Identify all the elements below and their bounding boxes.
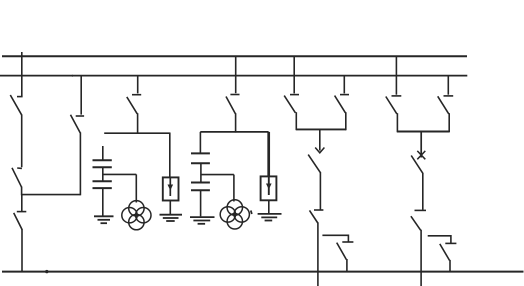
wire: QS8 to junction bar <box>345 112 347 130</box>
wire: stub above capacitor C1 <box>102 146 104 160</box>
fan M1 <box>122 201 151 230</box>
ground: below capacitor stack 1 <box>94 216 114 223</box>
disconnect switch QS16 <box>440 243 457 260</box>
capacitor C4 <box>191 183 210 191</box>
wire: feeder C tee branch <box>322 235 348 241</box>
wire: feeder D tee branch <box>428 236 451 243</box>
bus W3 (bottom bus) <box>2 271 524 273</box>
disconnect switch QS8 <box>335 95 349 113</box>
wire: QS14 to QS15 <box>422 173 424 210</box>
wire: feeder B from QS4 to node N1 <box>79 132 81 195</box>
capacitor C2 <box>93 181 112 188</box>
disconnect switch QS10 <box>310 210 324 223</box>
wire: feeder D left leg from top bus <box>395 56 397 94</box>
disconnect switch QS3 <box>14 212 27 230</box>
disconnect switch QS7 <box>284 95 299 113</box>
surge arrester F1 <box>163 177 179 200</box>
dot on bus W2 <box>71 75 73 77</box>
wire: QS9 to QS10 <box>319 172 321 209</box>
bus W2 (lower bus) <box>0 75 467 77</box>
wire: branch 1 from QS5 to header <box>137 113 139 134</box>
wire: header to capacitor C3 <box>199 132 201 154</box>
wire: QS11 to bottom bus <box>346 259 348 272</box>
ground: below arrester F1 <box>160 215 183 221</box>
disconnect switch QS15 <box>411 210 426 230</box>
ground: below arrester F2 <box>258 214 282 221</box>
junction dot on bus W3 <box>45 270 48 273</box>
wire: arrester F1 to ground <box>169 201 171 215</box>
wire: branch 1 header to arrester F1 <box>169 133 171 179</box>
wire: C4 to ground <box>200 190 202 216</box>
wire: QS13 to junction bar <box>448 113 450 132</box>
wire: between C1 and C2 <box>102 167 104 181</box>
wire: C2 to ground <box>102 188 104 216</box>
wire: feeder D junction bar <box>397 131 449 133</box>
wire: feeder C left leg from top bus <box>293 56 295 93</box>
wire: feeder D right leg from lower bus <box>447 76 449 95</box>
wire: feeder A from QS2 to node N1 <box>21 187 23 196</box>
wire: capacitor branch 2 tap from top bus <box>235 56 237 93</box>
disconnect switch QS11 <box>337 242 354 260</box>
wire: branch 2 from QS6 to header <box>235 113 237 132</box>
wire: mid-tap of capacitor stack 2 to fan M2 <box>201 175 234 202</box>
stray mark near arrester F2 ground <box>251 211 252 215</box>
wire: feeder C junction bar <box>296 128 346 130</box>
wire: QS12 to junction bar <box>396 113 398 132</box>
wire: feeder A from top bus <box>21 52 23 96</box>
wire: QS10 through bottom bus to edge <box>317 222 319 286</box>
wire: capacitor branch 1 tap from lower bus <box>137 76 139 94</box>
wire: branch 2 header to arrester F2 (thick lead) <box>267 132 270 177</box>
disconnect switch QS13 <box>438 96 454 114</box>
fan M2 <box>220 200 249 229</box>
wire: branch 2 header rail <box>200 131 268 133</box>
capacitor C1 <box>93 160 112 167</box>
disconnect switch QS4 <box>71 115 85 133</box>
wire: feeder D drop with star mark <box>417 132 425 160</box>
wire: QS15 through bottom bus to edge <box>420 230 422 286</box>
disconnect switch QS5 <box>127 95 141 114</box>
wire: QS7 to junction bar <box>295 112 297 130</box>
wire: feeder C drop with arrow <box>315 129 324 152</box>
wire: QS16 to bottom bus <box>449 260 451 272</box>
wire: feeder A between QS1 and QS2 <box>21 115 23 168</box>
bus W1 (top bus) <box>2 55 467 57</box>
disconnect switch QS6 <box>226 95 240 114</box>
disconnect switch QS9 <box>308 155 320 173</box>
disconnect switch QS2 <box>12 168 22 187</box>
capacitor C3 <box>191 153 210 163</box>
wire: mid-tap of capacitor stack 1 to fan M1 <box>103 174 137 202</box>
wire: interconnect node N1 to feeder B <box>22 194 81 196</box>
disconnect switch QS1 <box>10 95 22 115</box>
disconnect switch QS12 <box>386 96 402 114</box>
wire: feeder B from lower bus <box>80 76 82 115</box>
ground: below capacitor stack 2 <box>190 217 215 224</box>
wire: feeder C right leg from lower bus <box>343 76 345 94</box>
wire: arrester F2 to ground <box>268 200 270 213</box>
wire: feeder A from node N1 to QS3 <box>21 195 23 212</box>
wire: branch 1 header rail <box>104 132 170 134</box>
wire: between C3 and C4 <box>200 163 202 182</box>
surge arrester F2 <box>261 176 277 200</box>
wire: feeder A from QS3 to bottom bus <box>21 229 23 272</box>
disconnect switch QS14 <box>411 156 423 174</box>
